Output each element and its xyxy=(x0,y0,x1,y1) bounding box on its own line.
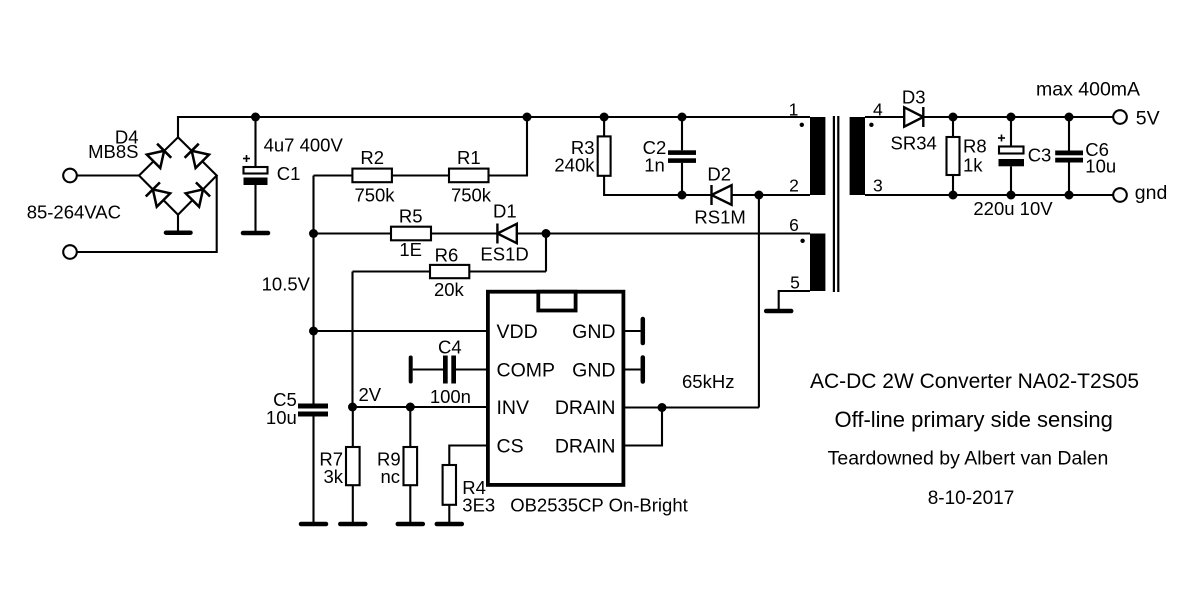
node R8 bottom xyxy=(949,191,958,200)
svg-text:VDD: VDD xyxy=(497,321,538,343)
node C6 bottom xyxy=(1065,191,1074,200)
ground C1 xyxy=(243,231,268,236)
diode D4d bottom-right xyxy=(185,182,210,207)
resistor R7 xyxy=(352,407,354,447)
svg-text:85-264VAC: 85-264VAC xyxy=(27,202,121,223)
polarity dot pin4 xyxy=(869,123,873,127)
op-amp U1 OB2535CP box xyxy=(488,292,624,485)
svg-text:GND: GND xyxy=(572,321,615,343)
svg-text:5: 5 xyxy=(790,273,800,293)
svg-text:10.5V: 10.5V xyxy=(262,274,311,295)
node VDD row xyxy=(309,327,318,336)
resistor R9 xyxy=(409,407,411,447)
wire T2 to bridge right vertex xyxy=(77,176,217,253)
terminal AC input top xyxy=(63,169,77,183)
wire R2 to R1 xyxy=(392,174,449,176)
polarity dot pin6 xyxy=(800,239,804,243)
capacitor C6 xyxy=(1068,117,1070,151)
svg-text:GND: GND xyxy=(572,360,615,382)
svg-text:DRAIN: DRAIN xyxy=(555,397,616,419)
resistor R5 xyxy=(391,227,431,241)
svg-text:C1: C1 xyxy=(277,163,301,184)
node HV rail riser xyxy=(523,113,532,122)
resistor R1 xyxy=(449,169,489,183)
svg-text:max 400mA: max 400mA xyxy=(1036,79,1140,101)
diode D1 xyxy=(496,224,498,244)
transformer core xyxy=(833,116,835,292)
svg-text:1E: 1E xyxy=(399,239,422,260)
svg-text:C3: C3 xyxy=(1028,145,1052,166)
resistor R6 xyxy=(430,265,469,278)
wire R6 right riser xyxy=(545,234,547,272)
plus marker C1 xyxy=(243,158,250,160)
IC tab notch xyxy=(538,292,575,311)
wire R2 row left xyxy=(314,174,353,176)
ground R9 xyxy=(398,522,423,527)
GND pin stub 1 xyxy=(622,330,641,332)
resistor R2 xyxy=(352,169,392,183)
svg-text:R8: R8 xyxy=(963,136,987,157)
node R3 top xyxy=(600,113,609,122)
svg-text:MB8S: MB8S xyxy=(88,141,138,162)
wire R5 to D1 xyxy=(431,232,497,234)
wire pin4 to D3 xyxy=(865,116,904,118)
diode D3 xyxy=(904,107,923,126)
node INV R9 xyxy=(406,403,415,412)
svg-text:8-10-2017: 8-10-2017 xyxy=(928,488,1015,509)
svg-text:ES1D: ES1D xyxy=(480,244,528,265)
ground R7 xyxy=(340,522,365,527)
svg-text:1n: 1n xyxy=(644,155,665,176)
node C2 top xyxy=(678,113,687,122)
ground bridge xyxy=(177,215,179,231)
capacitor C2 xyxy=(681,117,683,150)
node HV rail C1 xyxy=(251,113,260,122)
node C3 top xyxy=(1007,113,1016,122)
node C3 bottom xyxy=(1007,191,1016,200)
capacitor C1 xyxy=(254,117,256,167)
node R5 row left xyxy=(309,229,318,238)
capacitor C3 xyxy=(1010,117,1012,147)
node INV row left xyxy=(348,403,357,412)
svg-text:OB2535CP On-Bright: OB2535CP On-Bright xyxy=(510,495,688,516)
svg-text:Teardowned by Albert van Dalen: Teardowned by Albert van Dalen xyxy=(828,448,1109,470)
svg-text:20k: 20k xyxy=(434,279,465,300)
diode D4a top-left xyxy=(146,144,171,169)
node D1 R6 junction xyxy=(542,229,551,238)
svg-text:nc: nc xyxy=(380,466,400,487)
wire bridge top vertex to HV rail xyxy=(178,117,810,137)
svg-text:6: 6 xyxy=(789,215,799,235)
svg-text:R5: R5 xyxy=(399,205,423,226)
svg-text:4u7 400V: 4u7 400V xyxy=(264,135,344,156)
wire pin3 to gnd terminal xyxy=(865,194,1114,196)
svg-text:R6: R6 xyxy=(435,245,459,266)
svg-text:65kHz: 65kHz xyxy=(682,371,734,392)
svg-text:SR34: SR34 xyxy=(891,133,937,154)
transformer secondary winding xyxy=(850,117,865,195)
svg-text:COMP: COMP xyxy=(497,360,556,382)
svg-text:AC-DC 2W Converter NA02-T2S05: AC-DC 2W Converter NA02-T2S05 xyxy=(810,370,1139,393)
wire R6 right xyxy=(469,270,546,272)
svg-text:5V: 5V xyxy=(1136,108,1160,130)
wire D1 to aux winding pin6 xyxy=(517,232,810,234)
svg-text:D3: D3 xyxy=(902,86,926,107)
svg-text:Off-line primary side sensing: Off-line primary side sensing xyxy=(835,407,1113,432)
wire VDD row xyxy=(314,330,490,332)
wire R6 left riser to INV node xyxy=(351,272,353,408)
node C2 bottom xyxy=(678,191,687,200)
svg-text:INV: INV xyxy=(497,397,530,419)
diode D4b top-right xyxy=(185,144,210,169)
terminal gnd output xyxy=(1113,188,1127,202)
svg-text:2: 2 xyxy=(789,176,799,196)
svg-text:100n: 100n xyxy=(430,386,471,407)
polarity dot pin1 xyxy=(800,123,804,127)
ground pin5 xyxy=(766,309,791,314)
svg-text:D1: D1 xyxy=(493,201,517,222)
svg-text:R1: R1 xyxy=(457,147,481,168)
wire R6 left xyxy=(353,270,431,272)
diode D4c bottom-left xyxy=(146,182,171,207)
svg-text:3E3: 3E3 xyxy=(462,495,495,516)
svg-text:3: 3 xyxy=(873,176,883,196)
node DRAIN junction xyxy=(658,403,667,412)
wire CS to R4 xyxy=(449,446,489,466)
GND pin stub 2 xyxy=(622,368,641,370)
capacitor C5 xyxy=(298,404,328,409)
wire pin5 to ground xyxy=(779,291,810,309)
svg-text:C4: C4 xyxy=(438,337,462,358)
svg-text:220u 10V: 220u 10V xyxy=(973,198,1053,219)
node R8 top xyxy=(949,113,958,122)
wire D2 to pin2 xyxy=(732,194,810,196)
wire D3 to 5V terminal xyxy=(923,116,1113,118)
plus marker C3 xyxy=(998,137,1005,139)
svg-text:4: 4 xyxy=(873,100,883,120)
svg-text:1: 1 xyxy=(789,100,799,120)
svg-text:2V: 2V xyxy=(359,384,382,405)
svg-text:R2: R2 xyxy=(360,147,384,168)
resistor R4 xyxy=(443,465,456,505)
wire R5 row left xyxy=(314,232,392,234)
wire left sense divider vertical xyxy=(312,176,314,404)
svg-text:3k: 3k xyxy=(323,466,343,487)
svg-text:240k: 240k xyxy=(554,155,595,176)
wire DRAIN row xyxy=(622,406,759,408)
diode D2 xyxy=(682,194,712,196)
svg-text:D2: D2 xyxy=(707,164,731,185)
bridge rectifier D4 diamond xyxy=(139,137,217,214)
terminal 5V output xyxy=(1113,110,1127,124)
svg-text:DRAIN: DRAIN xyxy=(555,436,616,458)
ground R4 xyxy=(437,522,462,527)
svg-text:CS: CS xyxy=(497,436,524,458)
wire drain riser to pin2 xyxy=(758,195,760,408)
transformer primary winding xyxy=(810,117,825,195)
svg-text:10u: 10u xyxy=(1085,156,1116,177)
terminal AC input bottom xyxy=(63,245,77,259)
node C6 top xyxy=(1065,113,1074,122)
resistor R3 xyxy=(603,117,605,136)
svg-text:750k: 750k xyxy=(451,185,492,206)
svg-text:RS1M: RS1M xyxy=(694,207,745,228)
wire DRAIN2 xyxy=(622,408,662,446)
svg-text:10u: 10u xyxy=(266,407,297,428)
svg-text:1k: 1k xyxy=(963,155,983,176)
node pin2 drain riser xyxy=(754,191,763,200)
ground C5 xyxy=(301,522,326,527)
svg-text:gnd: gnd xyxy=(1135,182,1168,204)
svg-text:750k: 750k xyxy=(354,185,395,206)
wire INV row xyxy=(353,406,490,408)
wire T1 to bridge left vertex xyxy=(77,174,140,176)
transformer aux winding xyxy=(810,234,825,292)
wire R1 to HV rail riser xyxy=(489,117,528,176)
resistor R8 xyxy=(952,117,954,137)
capacitor C4 xyxy=(409,358,413,382)
